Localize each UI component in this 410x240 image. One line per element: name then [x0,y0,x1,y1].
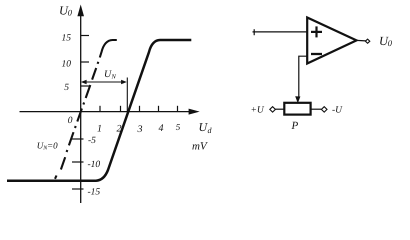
svg-text:P: P [291,120,299,132]
svg-text:15: 15 [62,34,72,44]
svg-text:-15: -15 [88,188,101,198]
svg-text:-5: -5 [88,136,96,146]
svg-text:3: 3 [137,124,143,135]
svg-text:+U: +U [251,105,265,115]
svg-text:5: 5 [176,122,181,132]
svg-text:-U: -U [332,105,343,115]
svg-text:mV: mV [192,141,208,153]
svg-text:10: 10 [62,60,72,70]
svg-text:0: 0 [388,38,393,48]
svg-text:-10: -10 [88,160,101,170]
svg-text:4: 4 [159,123,164,134]
svg-text:2: 2 [117,124,122,135]
svg-text:1: 1 [97,124,102,135]
svg-text:d: d [208,126,213,135]
svg-text:0: 0 [68,7,73,17]
svg-text:N: N [111,74,117,81]
svg-text:5: 5 [64,83,69,93]
svg-text:=0: =0 [47,140,58,150]
svg-text:0: 0 [68,116,73,126]
